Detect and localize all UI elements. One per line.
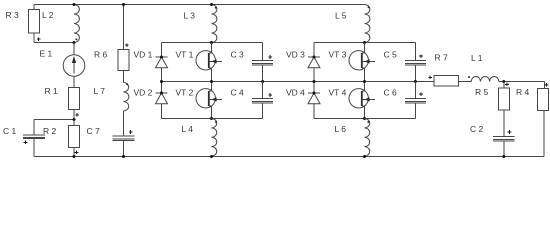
node L6 bottom junction (363, 155, 366, 158)
label L7 winding dot (126, 83, 128, 85)
label C4 plus marker (268, 93, 272, 97)
node C7 bottom junction (122, 155, 125, 158)
svg-text:C 3: C 3 (231, 50, 245, 60)
wire module1 upper rail (162, 42, 263, 44)
wire VD2 bottom stub (161, 104, 163, 119)
wire R4 bottom stub (543, 110, 545, 156)
svg-text:VT 4: VT 4 (329, 88, 347, 98)
wire module2 upper rail (314, 42, 415, 44)
wire C2 bottom lead (503, 141, 505, 157)
resistor R2 (69, 126, 80, 148)
wire C1 bottom lead (33, 139, 35, 157)
node VD column mid junction (160, 80, 163, 83)
node A junction (73, 41, 76, 44)
wire VD4 bottom stub (313, 104, 315, 119)
wire node B to C1 (34, 119, 74, 121)
wire C1 top lead (33, 120, 35, 135)
svg-text:C 6: C 6 (384, 88, 398, 98)
label R3 plus marker (37, 37, 41, 41)
node VD2 junction (160, 92, 163, 95)
label C1 plus marker (24, 141, 28, 145)
node VD3 junction (313, 56, 316, 59)
node C56 column mid junction (414, 80, 417, 83)
node L3 top junction (210, 3, 213, 6)
svg-text:L 3: L 3 (184, 11, 196, 21)
label C5 plus marker (419, 54, 423, 58)
svg-text:VT 1: VT 1 (176, 50, 194, 60)
inductor L2 (74, 5, 79, 43)
svg-text:C 1: C 1 (3, 126, 17, 136)
wire R6 top stub (123, 5, 125, 50)
label R1 plus marker (75, 113, 79, 117)
label L1 winding dot (468, 76, 470, 78)
wire R5 top stub (503, 82, 505, 89)
resistor R3 (29, 10, 40, 34)
wire E1 top stub (73, 43, 75, 55)
wire C3 top lead (262, 43, 264, 61)
wire VT2 bottom stub (211, 106, 213, 119)
wire C4 bottom lead (262, 103, 264, 119)
label R5 plus marker (505, 83, 509, 87)
wire VD3 to VD4 (313, 68, 315, 93)
wire VD1 top stub (161, 43, 163, 58)
diode VD4 (308, 93, 320, 104)
svg-text:VD 4: VD 4 (286, 88, 305, 98)
resistor R5 (498, 88, 509, 110)
svg-text:VD 3: VD 3 (286, 50, 305, 60)
node R2 bottom junction (73, 155, 76, 158)
svg-text:VT 3: VT 3 (329, 50, 347, 60)
wire bottom rail (34, 156, 544, 158)
svg-text:L 5: L 5 (335, 11, 347, 21)
wire C6 bottom lead (414, 103, 416, 119)
wire VD1 to VD2 (161, 68, 163, 93)
node VT column mid junction (210, 80, 213, 83)
node C column mid junction (261, 80, 264, 83)
diode VD1 (156, 57, 168, 68)
node R5 top junction (502, 80, 505, 83)
svg-text:R 2: R 2 (43, 126, 57, 136)
capacitor C1 (23, 135, 45, 139)
wire R4 top stub (544, 82, 546, 89)
label C2 plus marker (508, 130, 512, 134)
svg-text:VT 2: VT 2 (176, 88, 194, 98)
label L6 winding dot (367, 121, 369, 123)
svg-text:C 7: C 7 (87, 126, 101, 136)
wire R6 bottom stub (123, 70, 125, 82)
svg-text:E 1: E 1 (40, 49, 53, 59)
source E1 (63, 55, 85, 77)
wire VT1 to mid rail (211, 68, 213, 91)
wire L1 to R4 (499, 81, 545, 83)
svg-text:VD 1: VD 1 (134, 50, 153, 60)
label R4 plus marker (545, 83, 549, 87)
wire R5 to C2 (503, 110, 505, 136)
resistor R6 (118, 50, 129, 71)
wire VT3 to mid rail (364, 68, 366, 91)
resistor R7 (434, 76, 459, 87)
label L3 winding dot (215, 7, 217, 9)
svg-text:L 2: L 2 (42, 10, 54, 20)
inductor L3 (212, 5, 217, 43)
inductor L1 (471, 76, 499, 81)
svg-text:L 6: L 6 (335, 124, 347, 134)
wire C3 bottom lead (262, 65, 264, 82)
svg-text:R 6: R 6 (94, 50, 108, 60)
node VD4 junction (313, 92, 316, 95)
inductor L7 (124, 82, 129, 111)
label C7 plus marker (129, 130, 133, 134)
label R2 plus marker (75, 151, 79, 155)
node VD1 junction (160, 56, 163, 59)
capacitor C5 (405, 60, 426, 65)
wire R2 bottom stub (73, 148, 75, 157)
wire E1 bottom stub (73, 76, 75, 87)
node L4 bottom junction (210, 155, 213, 158)
svg-text:R 7: R 7 (435, 53, 449, 63)
svg-text:R 4: R 4 (516, 87, 530, 97)
node L4 top junction (210, 117, 213, 120)
label C6 plus marker (419, 92, 423, 96)
label L4 winding dot (215, 121, 217, 123)
transistor VT2 (196, 89, 222, 108)
node B junction (73, 118, 76, 121)
node VT34 column mid junction (363, 80, 366, 83)
wire C5 top lead (414, 43, 416, 61)
diode VD3 (308, 57, 320, 68)
node L6 top junction (363, 117, 366, 120)
label C3 plus marker (268, 55, 272, 59)
transistor VT1 (196, 51, 222, 70)
wire top rail (34, 4, 365, 6)
svg-text:R 1: R 1 (45, 86, 59, 96)
inductor L4 (212, 119, 217, 157)
wire R7 to L1 (459, 81, 472, 83)
wire C7 bottom lead (123, 140, 125, 156)
resistor R1 (69, 88, 80, 110)
capacitor C7 (113, 136, 135, 140)
wire C5 bottom lead (414, 65, 416, 82)
capacitor C4 (252, 98, 273, 103)
inductor L6 (365, 119, 370, 157)
wire VT4 bottom stub (364, 106, 366, 119)
wire middle rail (162, 81, 435, 83)
svg-text:C 4: C 4 (231, 88, 245, 98)
label R6 plus marker (125, 43, 129, 47)
wire R3 bottom to node A (34, 42, 74, 44)
svg-text:L 7: L 7 (94, 86, 106, 96)
resistor R4 (538, 88, 549, 110)
wire R3 top stub (33, 5, 35, 10)
capacitor C2 (493, 136, 515, 141)
node R6 top junction (122, 3, 125, 6)
svg-text:L 4: L 4 (182, 124, 194, 134)
label R7 plus marker (428, 76, 432, 80)
wire VD3 top stub (313, 43, 315, 58)
capacitor C6 (405, 98, 426, 103)
svg-text:R 5: R 5 (475, 87, 489, 97)
inductor L5 (365, 5, 370, 43)
svg-text:L 1: L 1 (471, 53, 483, 63)
transistor VT4 (349, 89, 375, 108)
node L2 top junction (73, 3, 76, 6)
svg-text:VD 2: VD 2 (134, 88, 153, 98)
wire C4 top lead (262, 82, 264, 99)
diode VD2 (156, 93, 168, 104)
node L5 bottom junction (363, 41, 366, 44)
wire R1 bottom stub (73, 110, 75, 120)
label L2 winding dot (75, 38, 77, 40)
transistor VT3 (349, 51, 375, 70)
svg-text:C 5: C 5 (384, 50, 398, 60)
wire VT3 top stub (364, 43, 366, 54)
wire module2 lower rail (314, 118, 415, 120)
svg-text:R 3: R 3 (6, 10, 20, 20)
wire VT1 top stub (211, 43, 213, 54)
wire R2 top stub (73, 120, 75, 126)
node VD34 column mid junction (313, 80, 316, 83)
node C2 bottom junction (502, 155, 505, 158)
node L3 bottom junction (210, 41, 213, 44)
wire C6 top lead (414, 82, 416, 99)
wire module1 lower rail (162, 118, 263, 120)
capacitor C3 (252, 60, 273, 65)
svg-text:C 2: C 2 (470, 124, 484, 134)
wire L7 to C7 (123, 111, 125, 136)
wire R3 bottom stub (33, 33, 35, 43)
label L5 winding dot (368, 6, 370, 8)
